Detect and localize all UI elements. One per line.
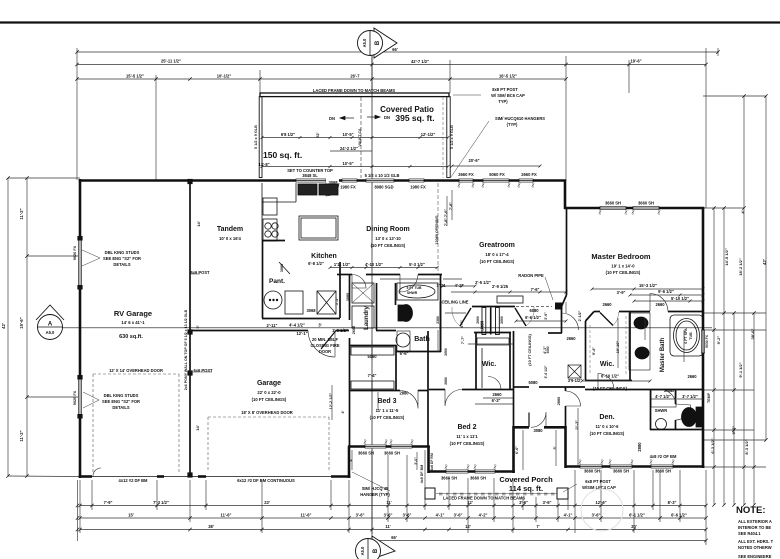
interior walls [190,181,703,476]
svg-text:7'-8": 7'-8" [444,218,448,226]
svg-text:W/ SIM/ BC6 CAP: W/ SIM/ BC6 CAP [491,93,525,98]
svg-text:4x8 #2 OF BM: 4x8 #2 OF BM [650,454,677,459]
bath 1 fixtures [396,283,438,351]
svg-text:11' 1 x 11'1: 11' 1 x 11'1 [456,434,478,439]
svg-text:3'-9": 3'-9" [617,290,626,295]
svg-text:4': 4' [740,210,745,213]
svg-text:6'-1 1/2": 6'-1 1/2" [629,513,645,518]
svg-text:3660 SH: 3660 SH [605,201,621,206]
section line B-B [371,55,373,534]
svg-text:4'-10 1/2": 4'-10 1/2" [365,262,383,267]
svg-text:11'-6": 11'-6" [301,513,312,518]
svg-text:7'-9": 7'-9" [104,500,113,505]
section line A-A [62,327,712,329]
svg-text:2660: 2660 [602,302,612,307]
wic shelving dashes [590,316,626,375]
svg-text:5': 5' [553,446,557,449]
svg-text:24'-2 1/2": 24'-2 1/2" [340,146,358,151]
svg-text:12'-6": 12'-6" [595,500,606,505]
svg-text:2660: 2660 [444,348,448,356]
svg-text:11': 11' [386,500,391,505]
svg-text:(10 FT CEILINGS): (10 FT CEILINGS) [370,415,405,420]
svg-text:5 1/2 x 9 GLB: 5 1/2 x 9 GLB [450,125,454,149]
svg-text:23': 23' [264,500,270,505]
patio column dashed left of right beam [442,97,444,178]
svg-text:18' X 8' OVERHEAD DOOR: 18' X 8' OVERHEAD DOOR [241,410,293,415]
svg-text:6'-3 1/2": 6'-3 1/2" [710,438,715,453]
border frame top line [0,21,780,23]
svg-text:630 sq.ft.: 630 sq.ft. [119,334,143,340]
svg-text:4x8 DF BM: 4x8 DF BM [420,465,424,483]
svg-text:3': 3' [318,323,321,328]
svg-text:3068: 3068 [306,308,316,313]
svg-text:Wic.: Wic. [600,361,614,368]
svg-text:16'-5 1/2": 16'-5 1/2" [499,74,517,79]
leader lines [82,95,577,492]
svg-text:22' 0 x 22'-0: 22' 0 x 22'-0 [257,390,281,395]
svg-text:7': 7' [536,524,539,529]
svg-text:CLOSING FIRE: CLOSING FIRE [310,343,339,348]
svg-text:2660: 2660 [480,321,484,329]
svg-text:3'-6": 3'-6" [414,457,418,465]
svg-text:25'-11 1/2": 25'-11 1/2" [161,59,181,64]
svg-text:1980 FX: 1980 FX [410,185,426,190]
windows [78,179,705,474]
svg-text:TYP): TYP) [498,99,508,104]
svg-text:A5.0: A5.0 [362,38,367,47]
svg-text:3'9-1/2": 3'9-1/2" [568,378,583,383]
svg-text:5 FT TUB: 5 FT TUB [407,286,422,290]
svg-text:2380: 2380 [436,316,440,324]
svg-text:9'-1 1/2": 9'-1 1/2" [738,362,743,377]
svg-text:8080 SGD: 8080 SGD [374,185,393,190]
svg-text:1'-9 1/2": 1'-9 1/2" [332,328,348,333]
svg-text:RV Garage: RV Garage [114,309,152,318]
vault c/l dashed [360,97,362,178]
svg-text:Covered Porch: Covered Porch [499,475,553,484]
svg-text:3'-6": 3'-6" [592,513,601,518]
greatroom fireplace [497,296,523,303]
svg-text:LACED FRAME DOWN TO MATCH BEAM: LACED FRAME DOWN TO MATCH BEAMS [313,88,395,93]
svg-text:3660 SH: 3660 SH [584,469,600,474]
svg-text:11'-6": 11'-6" [221,513,232,518]
svg-text:42': 42' [762,259,767,265]
svg-text:114 sq. ft.: 114 sq. ft. [509,484,543,493]
svg-text:6080: 6080 [529,308,539,313]
svg-text:66': 66' [391,535,397,540]
svg-text:3660 SH: 3660 SH [384,451,400,456]
svg-text:7'-6": 7'-6" [444,209,448,217]
svg-text:12': 12' [465,524,471,529]
svg-text:Greatroom: Greatroom [479,242,515,249]
svg-text:3660 SH: 3660 SH [358,451,374,456]
svg-text:3080: 3080 [280,264,284,272]
svg-text:6'-6 1/2": 6'-6 1/2" [671,513,687,518]
svg-text:A5.0: A5.0 [360,546,365,555]
svg-text:(10 FT CEILINGS): (10 FT CEILINGS) [371,243,406,248]
section marker B top [358,28,398,58]
svg-text:20': 20' [631,524,637,529]
greatroom opening door leaves [460,308,526,326]
svg-text:12'-1/2": 12'-1/2" [421,132,436,137]
svg-text:11' 1 x 11'-5: 11' 1 x 11'-5 [376,408,399,413]
svg-text:12'-1": 12'-1" [296,331,307,336]
svg-text:2'-9 1/25: 2'-9 1/25 [492,284,509,289]
master bath fixtures [629,313,703,430]
svg-text:3'-6": 3'-6" [384,513,393,518]
svg-text:6'-6 1/2": 6'-6 1/2" [525,315,541,320]
svg-text:(10 FT CEILINGS): (10 FT CEILINGS) [450,441,485,446]
svg-text:SEE ENG "S2" FOR: SEE ENG "S2" FOR [103,256,141,261]
covered patio beams [259,93,450,178]
svg-text:5 1/2 x 10 1/2 GLB: 5 1/2 x 10 1/2 GLB [365,173,400,178]
svg-text:4'-4 1/2": 4'-4 1/2" [289,323,305,328]
svg-text:3660 SH: 3660 SH [655,469,671,474]
svg-text:ALL EXTERIOR A: ALL EXTERIOR A [738,519,772,524]
overhead doors dashed [93,183,438,474]
svg-text:NOTE:: NOTE: [736,505,766,516]
svg-text:Den.: Den. [599,414,614,421]
interior dimension lines [262,138,703,471]
svg-text:DOOR: DOOR [319,349,331,354]
porch dashed edge [432,493,566,496]
svg-text:10' 0 x 16'4: 10' 0 x 16'4 [219,236,241,241]
svg-text:Laundry: Laundry [364,306,370,330]
exterior walls [79,179,705,478]
svg-text:18' 0 x 17'-4: 18' 0 x 17'-4 [485,252,509,257]
svg-text:3'-6": 3'-6" [403,513,412,518]
svg-text:2660: 2660 [566,336,576,341]
svg-text:4'-4": 4'-4" [460,320,464,328]
svg-text:11': 11' [385,524,390,529]
svg-text:SIM/ HJCQ 48: SIM/ HJCQ 48 [362,486,389,491]
svg-text:Bath: Bath [414,336,430,343]
svg-text:20 MIN. SELF: 20 MIN. SELF [312,337,338,342]
svg-text:38': 38' [208,524,214,529]
svg-text:3'-6": 3'-6" [543,500,552,505]
svg-text:DBL KING STUDS: DBL KING STUDS [105,250,140,255]
svg-text:3'-7 1/2": 3'-7 1/2" [682,394,698,399]
svg-text:14': 14' [196,221,201,226]
svg-text:CEILING LINE: CEILING LINE [441,300,468,305]
svg-text:3848 SL: 3848 SL [302,173,318,178]
svg-text:42': 42' [1,323,6,329]
svg-text:2660: 2660 [500,316,504,324]
svg-text:SHWR: SHWR [407,291,418,295]
svg-text:B: B [373,548,379,553]
svg-text:9'-3": 9'-3" [731,426,736,435]
svg-text:RADON PIPE: RADON PIPE [518,273,544,278]
svg-text:DBL KING STUDS: DBL KING STUDS [104,393,139,398]
svg-text:(10 FT CEILINGS): (10 FT CEILINGS) [528,334,532,366]
svg-text:12' X 14' OVERHEAD DOOR: 12' X 14' OVERHEAD DOOR [109,368,163,373]
svg-text:18'-2 1/2": 18'-2 1/2" [738,258,743,276]
svg-text:7'-3 1/2": 7'-3 1/2" [153,500,169,505]
svg-text:Tandem: Tandem [217,226,243,233]
svg-text:2880: 2880 [444,377,448,385]
svg-text:(10 FT CEILINGS): (10 FT CEILINGS) [480,259,515,264]
svg-text:5'-5": 5'-5" [335,297,339,305]
svg-text:3660 SH: 3660 SH [470,476,486,481]
svg-text:5080: 5080 [528,380,538,385]
svg-text:DETAILS: DETAILS [113,262,130,267]
svg-text:19'-6": 19'-6" [630,59,641,64]
svg-text:10'-5": 10'-5" [342,132,353,137]
svg-text:3080: 3080 [546,346,550,353]
svg-text:(10 FT CEILINGS): (10 FT CEILINGS) [593,386,628,391]
svg-text:12': 12' [467,500,473,505]
svg-text:11' 0 x 10'-6: 11' 0 x 10'-6 [596,424,620,429]
svg-text:19'-6": 19'-6" [19,317,24,328]
svg-text:2'-1/2": 2'-1/2" [578,310,582,321]
svg-text:8x8 PT POST: 8x8 PT POST [492,87,518,92]
svg-text:Master Bedroom: Master Bedroom [591,252,651,261]
svg-text:6x12 #2 DF BM CONTINUOUS: 6x12 #2 DF BM CONTINUOUS [237,478,295,483]
master door leaf [600,313,613,326]
svg-text:NOTED OTHERW: NOTED OTHERW [738,545,772,550]
svg-text:(10 FT CEILINGS): (10 FT CEILINGS) [252,397,287,402]
svg-text:HANGER (TYP): HANGER (TYP) [360,492,390,497]
svg-text:12080 OPENING: 12080 OPENING [435,215,439,244]
svg-text:2660 FX: 2660 FX [521,172,537,177]
svg-text:246B: 246B [664,388,674,393]
svg-text:5'-3 1/2": 5'-3 1/2" [409,262,425,267]
svg-text:5060 FX: 5060 FX [489,172,505,177]
svg-text:15'-3 1/2": 15'-3 1/2" [639,283,657,288]
svg-text:15': 15' [128,513,134,518]
svg-text:VAULT C/L: VAULT C/L [358,127,362,147]
svg-text:4': 4' [341,410,345,413]
svg-text:6'-6": 6'-6" [400,351,409,356]
svg-text:5'-10 1/2": 5'-10 1/2" [671,296,689,301]
svg-text:(TYP): (TYP) [507,122,518,127]
svg-text:6 FT SPA: 6 FT SPA [684,328,688,344]
svg-text:Kitchen: Kitchen [311,253,337,260]
svg-text:SIM/ HUCQ610 HANGERS: SIM/ HUCQ610 HANGERS [495,116,545,121]
svg-text:20'-6": 20'-6" [468,158,479,163]
svg-text:150 sq. ft.: 150 sq. ft. [263,150,302,160]
svg-text:38'-6": 38'-6" [750,328,755,339]
bed3 closet doors [351,347,394,389]
svg-text:10'-5": 10'-5" [342,161,353,166]
svg-text:66': 66' [392,47,398,52]
svg-text:DN: DN [384,115,390,120]
svg-text:TEMP: TEMP [707,392,711,403]
svg-text:4'-7 1/2": 4'-7 1/2" [655,394,671,399]
svg-text:12'-2 1/2": 12'-2 1/2" [329,392,333,409]
DN arrows [340,115,380,120]
svg-text:(10 FT CEILINGS): (10 FT CEILINGS) [590,431,625,436]
svg-text:4'-2": 4'-2" [479,513,488,518]
svg-text:9026 FX: 9026 FX [73,390,77,405]
attic access x-box [568,365,581,378]
section marker A left [36,305,64,340]
svg-text:14': 14' [195,425,200,430]
svg-text:26'-7: 26'-7 [350,74,360,79]
svg-text:ALL EXT. HDRS. T: ALL EXT. HDRS. T [738,539,774,544]
kitchen counters and appliances [262,183,338,241]
svg-text:6'-6": 6'-6" [515,446,519,454]
svg-text:Master Bath: Master Bath [660,337,666,372]
svg-text:2660: 2660 [655,302,665,307]
svg-text:3080: 3080 [346,293,350,301]
svg-text:1'11 1/2": 1'11 1/2" [334,262,350,267]
svg-text:2880: 2880 [637,442,642,452]
svg-text:INTERIOR TO BE: INTERIOR TO BE [738,525,771,530]
svg-text:1980 FX: 1980 FX [340,185,356,190]
svg-text:2660: 2660 [492,392,502,397]
svg-text:3080: 3080 [533,428,543,433]
svg-text:5': 5' [196,325,200,328]
svg-text:7'-6": 7'-6" [531,287,540,292]
svg-text:(10 FT CEILINGS): (10 FT CEILINGS) [606,270,641,275]
pony wall posts [187,179,192,478]
svg-text:LACED FRAME DOWN TO MATCH BEAM: LACED FRAME DOWN TO MATCH BEAMS [443,496,525,501]
svg-text:395 sq. ft.: 395 sq. ft. [395,113,434,123]
svg-text:13' 0 x 13'-10: 13' 0 x 13'-10 [375,236,401,241]
svg-text:SEE ENG "S2" FOR: SEE ENG "S2" FOR [102,399,140,404]
svg-text:11'-3": 11'-3" [575,420,579,430]
svg-text:Dining Room: Dining Room [366,226,410,233]
svg-text:8'-3": 8'-3" [668,500,677,505]
svg-text:2x6 PONY WALL ON TOP OF 5 1/2: 2x6 PONY WALL ON TOP OF 5 1/2 x 13 1/2 G… [184,309,188,390]
svg-text:7'-8": 7'-8" [449,202,453,210]
svg-text:9026 FX: 9026 FX [73,245,77,260]
svg-text:3'-6 1/2": 3'-6 1/2" [544,365,548,378]
svg-text:6'-8 1/2": 6'-8 1/2" [308,261,324,266]
svg-text:10'-1/2": 10'-1/2" [217,74,232,79]
svg-text:11'-2": 11'-2" [19,430,24,441]
svg-text:2660: 2660 [476,316,480,324]
svg-text:Garage: Garage [257,380,281,387]
svg-text:14' 6 x 41'-1: 14' 6 x 41'-1 [121,320,145,325]
section marker B bottom [356,536,396,559]
svg-text:2880: 2880 [557,397,561,405]
svg-text:3'-6": 3'-6" [356,513,365,518]
svg-text:Wic.: Wic. [482,361,496,368]
svg-text:5060: 5060 [367,354,377,359]
svg-text:3068: 3068 [328,180,338,185]
svg-text:SHWR: SHWR [655,408,668,413]
svg-text:5 1/2 x 9 GLB: 5 1/2 x 9 GLB [254,125,258,149]
svg-text:3'-9": 3'-9" [544,312,548,320]
svg-text:2'-5 1/2": 2'-5 1/2" [475,280,491,285]
svg-text:8'-3 1/2": 8'-3 1/2" [744,439,749,454]
angled wall corner wic2 [562,295,595,321]
svg-text:Pant.: Pant. [269,278,285,285]
svg-text:3660 SH: 3660 SH [638,201,654,206]
svg-text:7'-4": 7'-4" [368,373,377,378]
svg-text:4x12 #2 DF BM: 4x12 #2 DF BM [119,478,148,483]
svg-text:11'-2": 11'-2" [19,208,24,219]
svg-text:15'-5 1/2": 15'-5 1/2" [126,74,144,79]
svg-text:4': 4' [349,458,353,461]
svg-text:3660 SH: 3660 SH [441,476,457,481]
svg-text:Bed 2: Bed 2 [457,424,476,431]
svg-text:TUB: TUB [689,332,693,340]
laundry appliances / water heater [264,283,374,328]
svg-text:6x6 POST: 6x6 POST [193,368,213,373]
svg-text:2880: 2880 [399,391,409,396]
svg-text:6x8 PT POST: 6x8 PT POST [585,479,611,484]
radon pipe blob [555,303,563,310]
svg-text:DN: DN [329,116,335,121]
svg-text:A: A [48,322,53,328]
wic1 shelf [477,338,509,345]
svg-text:2'-11": 2'-11" [267,323,278,328]
svg-text:2660 FX: 2660 FX [458,172,474,177]
svg-text:6'8 1/2": 6'8 1/2" [281,132,295,137]
svg-text:6'-10 1/2": 6'-10 1/2" [601,374,619,379]
svg-text:3'-6": 3'-6" [454,513,463,518]
svg-text:A5.0: A5.0 [46,330,55,335]
svg-text:14'-5 1/2": 14'-5 1/2" [724,248,729,266]
svg-text:4'-1": 4'-1" [564,513,573,518]
svg-text:52': 52' [316,132,320,137]
svg-text:SEE ENGINEERE: SEE ENGINEERE [738,554,772,559]
linen closet [482,308,499,335]
door swing arcs [93,183,691,477]
svg-text:19' 1 x 14'-0: 19' 1 x 14'-0 [611,264,635,269]
svg-text:7'-7": 7'-7" [461,336,465,344]
svg-text:3'-6": 3'-6" [519,500,528,505]
svg-text:3660 SH: 3660 SH [613,469,629,474]
svg-text:2660: 2660 [687,374,697,379]
svg-text:9'-4": 9'-4" [592,347,596,355]
svg-text:6'-3": 6'-3" [492,398,501,403]
door leaves [321,331,529,428]
svg-text:9'-6 1/2": 9'-6 1/2" [658,289,674,294]
svg-text:6x6 POST: 6x6 POST [190,270,210,275]
svg-text:SEE R404.1: SEE R404.1 [738,531,761,536]
svg-text:4x8 DF RM: 4x8 DF RM [430,453,434,471]
svg-text:2680: 2680 [352,326,356,334]
svg-text:9'-2": 9'-2" [716,336,721,345]
svg-text:5030 FX: 5030 FX [705,334,709,348]
svg-text:4'-1": 4'-1" [436,513,445,518]
svg-text:42'-7 1/2": 42'-7 1/2" [411,59,429,64]
svg-text:Bed 3: Bed 3 [377,398,396,405]
svg-text:DETAILS: DETAILS [112,405,129,410]
svg-text:B: B [375,40,381,45]
